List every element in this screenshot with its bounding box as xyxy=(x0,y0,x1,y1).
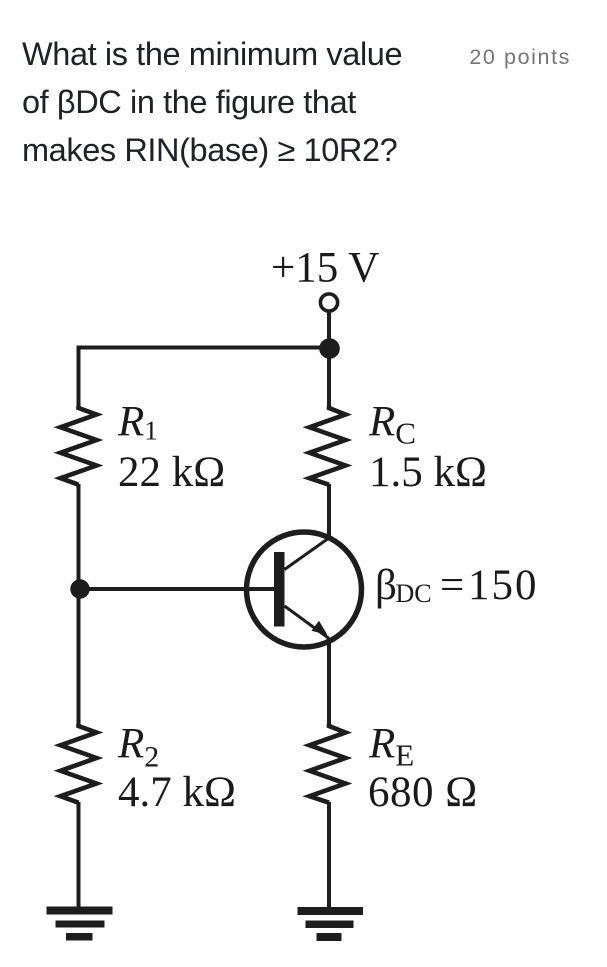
svg-text:1.5 kΩ: 1.5 kΩ xyxy=(369,449,487,496)
resistor R2 xyxy=(61,724,97,803)
svg-text:22 kΩ: 22 kΩ xyxy=(118,449,225,496)
svg-text:RC: RC xyxy=(368,399,416,451)
question text xyxy=(22,30,452,174)
svg-text:βDC=150: βDC=150 xyxy=(375,562,539,609)
wire right rail upper (junction to RC) xyxy=(327,348,331,409)
collector line xyxy=(285,537,332,570)
wire base xyxy=(79,587,275,591)
wire top rail and left rail upper segment xyxy=(79,348,330,409)
svg-text:R2: R2 xyxy=(117,721,159,774)
wire right rail lower segment xyxy=(327,802,331,907)
resistor RC xyxy=(310,406,346,485)
points label xyxy=(469,44,571,70)
svg-text:RE: RE xyxy=(368,721,414,773)
transistor base bar xyxy=(274,552,285,627)
emitter arrowhead xyxy=(312,621,328,635)
ground (left) xyxy=(47,907,113,941)
wire RC to transistor collector xyxy=(327,484,331,538)
resistor R1 xyxy=(61,406,97,485)
svg-text:R1: R1 xyxy=(117,399,158,446)
emitter line xyxy=(285,606,330,639)
ground (right) xyxy=(298,907,364,941)
svg-text:680 Ω: 680 Ω xyxy=(368,769,478,816)
transistor Q1 circle xyxy=(247,532,362,647)
wire terminal to junction xyxy=(327,312,331,350)
wire transistor emitter to RE xyxy=(327,641,331,727)
node dot (base node) xyxy=(70,579,89,598)
wire left rail lower segment xyxy=(77,802,81,907)
svg-text:+15 V: +15 V xyxy=(271,245,379,292)
supply terminal (open circle) xyxy=(320,294,337,311)
wire left rail mid segment xyxy=(77,484,81,726)
resistor RE xyxy=(310,724,346,803)
svg-text:4.7 kΩ: 4.7 kΩ xyxy=(118,769,236,816)
junction dot xyxy=(319,338,340,359)
